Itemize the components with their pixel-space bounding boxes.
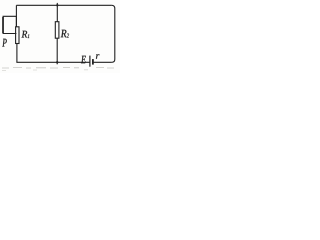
wire top xyxy=(16,4,111,6)
node top junction of R2 branch xyxy=(56,4,58,6)
wire right side xyxy=(112,5,115,62)
label P xyxy=(2,39,6,47)
label E xyxy=(81,56,86,63)
wire left side upper xyxy=(15,5,17,27)
wire R2 branch lower xyxy=(56,38,58,64)
label R1 xyxy=(22,31,30,38)
wire bottom right segment xyxy=(93,61,111,63)
resistor R2 xyxy=(55,22,59,39)
battery E (cell, long plate + short thick plate) xyxy=(90,56,93,67)
label R2 xyxy=(61,30,69,38)
resistor R1 xyxy=(16,27,19,44)
node bottom junction of R2 branch xyxy=(56,61,58,63)
box P (component box on left wire) xyxy=(3,16,16,33)
wire bottom left segment xyxy=(16,61,89,63)
wire left side lower xyxy=(16,44,18,63)
label r xyxy=(96,54,99,59)
wire R2 branch upper xyxy=(56,3,58,22)
